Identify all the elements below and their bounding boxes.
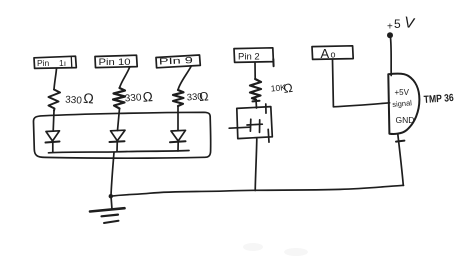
svg-text:A: A <box>321 46 330 61</box>
svg-text:signal: signal <box>392 98 413 109</box>
svg-text:Ω: Ω <box>282 81 293 96</box>
svg-text:330: 330 <box>124 92 142 104</box>
svg-text:Ω: Ω <box>199 89 209 104</box>
svg-text:PIn 9: PIn 9 <box>159 55 193 66</box>
svg-text:GND: GND <box>396 115 415 125</box>
svg-text:Ω: Ω <box>142 89 153 105</box>
svg-text:+5V: +5V <box>395 88 410 97</box>
svg-text:5: 5 <box>394 17 401 31</box>
svg-text:o: o <box>331 50 336 60</box>
svg-text:Ω: Ω <box>83 90 95 107</box>
svg-text:Pin 2: Pin 2 <box>238 52 260 63</box>
svg-text:Pin 10: Pin 10 <box>99 57 131 67</box>
svg-text:Pin: Pin <box>37 58 50 68</box>
svg-text:+: + <box>387 22 393 33</box>
svg-text:V: V <box>403 14 416 33</box>
svg-text:1ı: 1ı <box>59 58 66 68</box>
svg-text:330: 330 <box>65 95 83 107</box>
svg-text:TMP 36: TMP 36 <box>423 92 454 106</box>
